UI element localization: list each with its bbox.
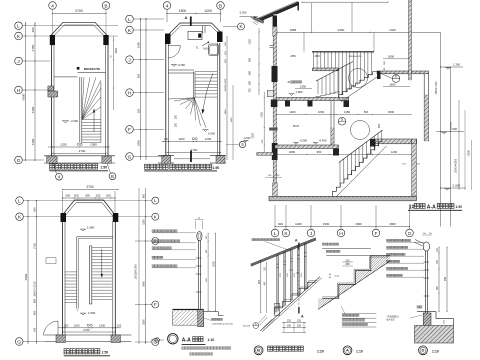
left wall: [51, 44, 53, 156]
svg-text:2750: 2750: [31, 44, 35, 51]
top boundary line: [302, 1, 388, 3]
svg-text:1300: 1300: [31, 138, 35, 145]
svg-text:2350: 2350: [290, 55, 296, 58]
svg-text:200: 200: [96, 194, 101, 198]
title detailC: [155, 338, 159, 342]
svg-text:600: 600: [65, 194, 70, 198]
floor slab: [417, 311, 436, 313]
svg-text:G: G: [408, 231, 412, 237]
bottom bubble B: [109, 173, 116, 180]
left grid bubbles plan2: [126, 15, 134, 23]
svg-text:145X9=1320: 145X9=1320: [436, 81, 438, 95]
title plan3: [64, 349, 69, 354]
svg-text:2700: 2700: [83, 328, 90, 332]
svg-text:1800: 1800: [289, 150, 296, 154]
svg-text:1.980: 1.980: [87, 226, 95, 230]
svg-text:800: 800: [249, 57, 252, 62]
svg-text:250: 250: [287, 324, 292, 327]
basement stringer: [333, 146, 387, 201]
svg-text:1300: 1300: [249, 39, 252, 45]
svg-text:1:10: 1:10: [356, 349, 363, 353]
right bubble K: [238, 23, 245, 30]
svg-text:250: 250: [345, 263, 350, 266]
ground slab beam: [333, 149, 339, 156]
svg-text:1050: 1050: [212, 261, 215, 267]
bottom col left: [56, 335, 65, 343]
title detailA: [343, 346, 352, 355]
svg-text:1800: 1800: [355, 222, 362, 226]
svg-text:0.000: 0.000: [450, 127, 457, 131]
second floor slab: [313, 68, 339, 71]
svg-text:2700: 2700: [75, 9, 83, 13]
flight up steps: [339, 72, 378, 98]
svg-text:1.500: 1.500: [88, 311, 96, 315]
treads right flight: [92, 247, 112, 249]
gutter marks: [255, 21, 259, 24]
svg-text:1.980: 1.980: [296, 90, 303, 94]
svg-text:L: L: [274, 231, 277, 237]
detail bubble D upper: [392, 75, 400, 83]
base leader text: [204, 318, 211, 320]
dim row 1320/1380: [48, 146, 110, 148]
washing machine: [188, 32, 202, 40]
left wall: [165, 44, 167, 156]
door header lines: [78, 72, 106, 74]
svg-text:-0.500: -0.500: [299, 139, 307, 143]
level -0.600 left: [244, 140, 247, 142]
soffit line: [318, 261, 390, 310]
grid bubble B top: [217, 2, 225, 10]
level -0.500: [294, 143, 297, 145]
dim right inner: [207, 233, 209, 311]
wall niche mark: [46, 258, 56, 264]
svg-text:120: 120: [64, 323, 69, 327]
svg-text:1:50: 1:50: [456, 205, 463, 209]
svg-text:1320: 1320: [60, 143, 67, 147]
svg-text:4: 4: [166, 3, 169, 9]
dim 2700 bottom: [53, 152, 107, 154]
svg-text:1500: 1500: [179, 9, 187, 13]
svg-text:6900: 6900: [21, 93, 25, 100]
exterior grade ledge: [257, 153, 274, 156]
wall basement: [272, 183, 277, 196]
title detailD: [419, 346, 428, 355]
svg-text:F: F: [128, 127, 131, 133]
svg-text:B4.8: B4.8: [293, 124, 299, 128]
dim 1500/1200: [167, 13, 221, 15]
dim 2700 top: [63, 189, 119, 191]
left small dim line: [258, 28, 260, 95]
left mid dim line: [263, 92, 265, 152]
wall beam at slab: [271, 100, 278, 108]
wall block top: [273, 16, 277, 27]
svg-text:2700: 2700: [79, 149, 86, 153]
right dim verticals: [440, 32, 442, 226]
svg-text:L: L: [17, 24, 20, 30]
step profile: [322, 255, 390, 298]
window sill tick: [270, 45, 274, 47]
svg-text:1380: 1380: [90, 143, 97, 147]
svg-text:2300: 2300: [31, 106, 35, 113]
level pm0.000 flag: [436, 131, 464, 133]
left wall: [62, 221, 64, 335]
svg-text:130: 130: [164, 137, 169, 141]
svg-text:A-A: A-A: [182, 337, 191, 343]
treads left flight: [65, 271, 77, 273]
svg-text:1:50: 1:50: [100, 166, 107, 170]
title plan2: [145, 164, 150, 169]
basement wall right: [411, 139, 413, 200]
level -3.300: [63, 121, 67, 123]
lower small steps: [316, 92, 340, 98]
left dim chain plan2: [140, 18, 142, 160]
balusters double: [276, 255, 278, 312]
svg-text:1:50: 1:50: [102, 351, 109, 355]
floor slab top edge: [173, 309, 204, 311]
svg-text:6900: 6900: [24, 273, 28, 280]
wall block low: [272, 143, 278, 160]
svg-text:520: 520: [137, 108, 141, 113]
svg-text:G: G: [17, 339, 21, 345]
svg-text:15X250=2750: 15X250=2750: [135, 264, 138, 280]
svg-text:-3.300: -3.300: [70, 119, 78, 123]
post top dims: [195, 219, 204, 221]
svg-text:A: A: [255, 322, 257, 326]
svg-text:F: F: [374, 231, 377, 237]
post rungs: [196, 257, 202, 259]
left grid bubbles: [15, 22, 23, 30]
svg-text:600: 600: [278, 222, 283, 226]
upper landing slab: [377, 71, 429, 74]
stair treads: [82, 119, 101, 121]
svg-text:2750: 2750: [32, 243, 36, 249]
svg-text:600: 600: [106, 194, 111, 198]
svg-text:G: G: [128, 154, 132, 160]
svg-text:1920: 1920: [389, 28, 396, 32]
bottom dims: [58, 327, 121, 329]
svg-text:0.000: 0.000: [208, 132, 215, 136]
ground slab: [275, 145, 339, 149]
svg-text:950: 950: [444, 276, 447, 281]
svg-text:1000: 1000: [252, 133, 255, 139]
post rungs: [424, 261, 430, 263]
dim row 600/200/900/200/600: [63, 197, 116, 199]
right grid bubbles plan3: [152, 197, 159, 204]
grid extension lines: [274, 205, 276, 229]
svg-text:-0.450: -0.450: [177, 63, 185, 67]
svg-text:220: 220: [287, 319, 292, 322]
level -0.450: [172, 65, 176, 67]
bottom wall: [158, 155, 174, 157]
right dim chain: [145, 188, 147, 344]
svg-text:500: 500: [364, 110, 369, 114]
plan2 group: laundry room and first floor stair plan: [126, 2, 246, 171]
winder treads: [82, 77, 84, 119]
roof slab: [258, 2, 299, 22]
svg-text:250: 250: [297, 324, 302, 327]
svg-text:900: 900: [137, 73, 141, 78]
wall footing ledge: [269, 128, 277, 131]
svg-text:1:50: 1:50: [213, 166, 220, 170]
svg-text:250: 250: [175, 122, 178, 127]
svg-text:1:20: 1:20: [317, 349, 324, 353]
svg-text:6@120: 6@120: [243, 326, 251, 328]
detailD group: railing post base detail: [387, 233, 454, 355]
handrail profile: [423, 242, 429, 251]
left wall outer: [272, 14, 274, 196]
svg-text:1450: 1450: [261, 112, 264, 118]
svg-text:-0.600: -0.600: [244, 137, 252, 140]
grid verticals plan1: [52, 9, 54, 46]
treads: [195, 71, 217, 73]
grid bubble B top: [102, 2, 110, 10]
svg-text:1800: 1800: [115, 48, 118, 54]
svg-text:220: 220: [297, 319, 302, 322]
slab beam 1: [285, 101, 290, 107]
level -1.000 flag: [440, 187, 466, 189]
column left: [61, 213, 67, 222]
door arc bottom left: [44, 321, 59, 336]
top dim line: [277, 31, 441, 33]
leader text top: [322, 243, 324, 245]
level 1.500: [81, 313, 85, 315]
svg-text:H: H: [17, 88, 21, 94]
svg-text:650: 650: [249, 70, 252, 75]
detailB group: stair handrail elevation detail: [243, 238, 342, 355]
roof upper thin line: [255, 1, 297, 19]
column left: [165, 34, 171, 45]
svg-text:B: B: [111, 174, 114, 179]
slab beam 3: [344, 101, 350, 108]
svg-text:1300: 1300: [142, 219, 145, 225]
svg-text:1400: 1400: [289, 110, 296, 114]
svg-text:2350: 2350: [300, 84, 307, 88]
balusters flight2: [317, 80, 319, 94]
title plan1: [50, 164, 55, 169]
leader verticals: [62, 191, 64, 213]
title detailB: [254, 346, 263, 355]
svg-text:500: 500: [249, 80, 252, 85]
door arc laundry: [168, 46, 181, 59]
svg-text:A: A: [346, 348, 349, 353]
svg-text:1800: 1800: [388, 54, 395, 58]
dim boxes bottom: [282, 322, 306, 324]
svg-text:1200: 1200: [99, 323, 105, 327]
grid bubble 4 top: [49, 2, 57, 10]
partition stub: [202, 26, 204, 34]
svg-text:140: 140: [32, 327, 36, 332]
newel base: [275, 304, 280, 316]
svg-text:600: 600: [142, 193, 145, 198]
left wall hatch fill: [273, 14, 276, 196]
svg-text:1150: 1150: [344, 110, 350, 114]
grid dim line bottom: [275, 226, 410, 228]
bottom col left: [162, 156, 171, 164]
landing edge beam: [377, 71, 381, 79]
svg-text:1200: 1200: [178, 137, 185, 141]
leaders: [166, 9, 168, 22]
center rail: [88, 246, 90, 304]
winder arc: [187, 100, 194, 106]
right dim chain plan2: [226, 36, 228, 160]
winder treads: [174, 98, 194, 101]
svg-text:1800: 1800: [225, 109, 227, 115]
right dim line 2: [232, 85, 234, 160]
svg-text:-1.000: -1.000: [452, 184, 460, 188]
svg-text:1600: 1600: [389, 82, 396, 86]
dim 1600: [383, 86, 410, 88]
detail bubble D lower: [338, 117, 346, 125]
basement rail: [339, 130, 383, 163]
wall block mid: [272, 66, 278, 82]
right wall outer lower: [423, 74, 425, 141]
svg-text:660: 660: [32, 298, 36, 303]
svg-text:H: H: [128, 90, 132, 96]
stair well outline: [77, 236, 113, 238]
section mark A bottom: [190, 151, 192, 163]
left wall inner: [276, 16, 278, 196]
svg-text:200: 200: [74, 194, 79, 198]
handrail level 2 flat: [312, 51, 374, 53]
handrail diagonal: [251, 238, 316, 264]
finish leader lines: [322, 247, 371, 249]
notes leader: [341, 306, 345, 314]
svg-text:1800: 1800: [389, 222, 396, 226]
right wall: [105, 44, 107, 156]
post base block: [198, 310, 204, 327]
handrail profile top: [197, 232, 202, 241]
svg-text:G: G: [156, 338, 158, 342]
svg-text:1800: 1800: [314, 55, 320, 58]
svg-text:B: B: [257, 348, 260, 353]
svg-text:G: G: [17, 158, 21, 164]
roof apex edge: [297, 2, 299, 11]
svg-text:700: 700: [249, 88, 252, 93]
annotation leader texts: [387, 239, 389, 241]
stair header: [168, 69, 194, 71]
detailA group: stair step finish detail: [300, 243, 474, 355]
bottom col right: [216, 156, 225, 164]
leader text top left: [252, 238, 254, 240]
svg-text:9X250=2250: 9X250=2250: [225, 78, 227, 91]
svg-text:6.300: 6.300: [240, 11, 247, 15]
svg-text:120: 120: [117, 323, 122, 327]
bottom column right: [102, 156, 111, 163]
ground hatch band: [415, 326, 454, 344]
grid bubble 4 top: [163, 2, 171, 10]
svg-text:A: A: [185, 15, 188, 20]
svg-text:-0.450: -0.450: [319, 139, 327, 143]
construction verticals: [311, 3, 313, 32]
floor hatch: [173, 311, 202, 326]
right wall upper: [408, 0, 410, 80]
column left: [50, 35, 55, 45]
left dim chain: [27, 200, 29, 344]
svg-text:A: A: [295, 239, 298, 243]
down arrow: [203, 73, 214, 112]
annotation leaders left: [152, 230, 154, 232]
dim row under laundry slab: [277, 114, 411, 116]
svg-text:3300: 3300: [466, 150, 470, 156]
column right: [113, 213, 119, 222]
base text: [417, 306, 419, 308]
slab beam 2: [308, 101, 313, 107]
column right: [103, 35, 108, 45]
roof eave tip: [253, 17, 264, 24]
dim row basement: [277, 154, 411, 156]
svg-text:D: D: [422, 348, 425, 353]
svg-text:8L=100: 8L=100: [387, 320, 395, 322]
dim 2700 top: [53, 13, 107, 15]
dim 2700 bottom: [167, 152, 221, 154]
svg-text:1500: 1500: [231, 117, 233, 123]
svg-text:950: 950: [317, 150, 322, 154]
basement balusters: [339, 162, 341, 188]
wall hatch band: [273, 27, 277, 37]
svg-text:A: A: [301, 315, 304, 319]
svg-text:1.300: 1.300: [453, 63, 460, 67]
wall pilaster: [48, 86, 54, 91]
laundry sink: [209, 44, 219, 56]
detail bubble A ref: [253, 323, 259, 329]
svg-text:1080: 1080: [137, 42, 141, 48]
bottom col right: [111, 335, 120, 343]
dim left 900: [260, 260, 262, 313]
svg-text:1200: 1200: [295, 222, 302, 226]
bay window outline: [166, 23, 223, 38]
svg-text:1050: 1050: [318, 110, 325, 114]
svg-text:-5X200X80.2#8L=100: -5X200X80.2#8L=100: [212, 324, 234, 326]
door tag M900X2700: [77, 67, 80, 70]
dim 1800 small: [383, 58, 410, 60]
grid bubbles under section: [271, 229, 279, 237]
level 1.300 flag: [440, 66, 463, 68]
laundry floor slab: [277, 98, 349, 101]
svg-text:1290: 1290: [391, 150, 398, 154]
level 1.980: [81, 229, 85, 231]
left dim chains: [25, 22, 27, 161]
stair soffit diagonal: [260, 277, 320, 331]
svg-text:250X7=1750: 250X7=1750: [32, 281, 36, 296]
svg-text:1200: 1200: [204, 9, 212, 13]
lower landing slab: [373, 139, 417, 144]
bottom wall: [44, 155, 115, 157]
svg-text:900: 900: [32, 310, 36, 315]
svg-text:1500: 1500: [323, 222, 330, 226]
level pm0.000: [204, 130, 208, 132]
dims right: [438, 247, 440, 312]
bay window outline: [61, 200, 118, 218]
flight stringer: [342, 76, 380, 102]
basement floor slab: [269, 196, 416, 201]
right bubble 5: [239, 141, 245, 147]
level 1.980: [290, 94, 294, 96]
lower landing beam: [370, 139, 376, 147]
notes under title: [182, 347, 185, 350]
svg-text:1885: 1885: [290, 28, 297, 32]
rail diagonal flight2: [316, 62, 353, 82]
stair direction arrow: [93, 110, 95, 132]
svg-text:-75A29B0.2: -75A29B0.2: [387, 316, 400, 319]
svg-text:L: L: [128, 17, 131, 23]
svg-text:1:10: 1:10: [208, 338, 215, 342]
slab step right: [204, 311, 219, 313]
bottom wall: [44, 334, 131, 336]
svg-text:5400: 5400: [142, 281, 145, 287]
section group: stair section A-A: [240, 0, 472, 237]
svg-text:250: 250: [175, 114, 178, 119]
wall ledge mid: [267, 90, 273, 96]
